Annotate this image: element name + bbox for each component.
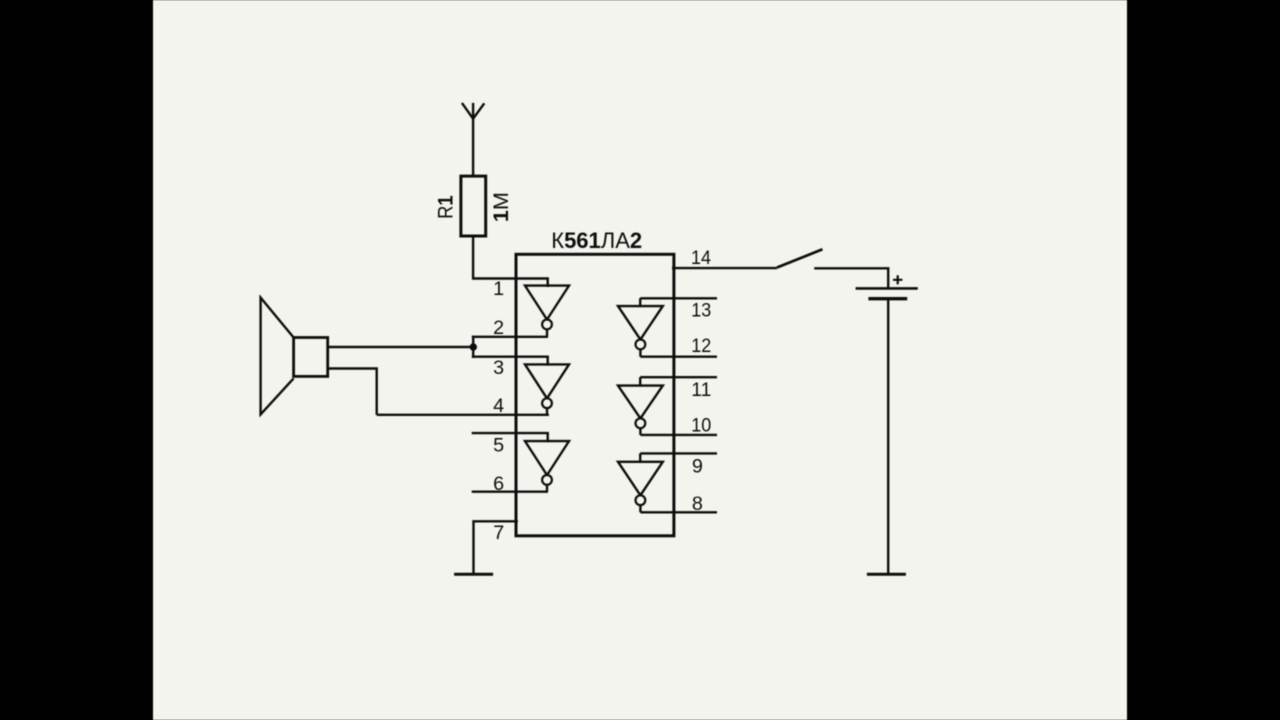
inverter U1.5 triangle (618, 386, 663, 419)
inverter U1.4 bubble (636, 340, 646, 350)
svg-text:2: 2 (493, 317, 504, 339)
svg-text:3: 3 (493, 357, 504, 379)
canvas background (153, 0, 1127, 720)
inverter U1.6 input drop (639, 453, 641, 462)
speaker BA1 frame (294, 338, 328, 377)
wire pin 9 (640, 452, 717, 454)
wire bridge pin2-pin3 (472, 336, 474, 358)
svg-text:7: 7 (493, 522, 504, 544)
wire pin 3 (472, 356, 549, 358)
wire pin 13 (640, 297, 717, 299)
svg-text:12: 12 (691, 335, 711, 357)
inverter U1.4 triangle (618, 306, 663, 339)
wire pin 14 to switch (672, 267, 777, 269)
svg-text:К561ЛА2: К561ЛА2 (551, 228, 642, 253)
inverter U1.5 bubble (636, 418, 646, 428)
svg-text:1М: 1М (490, 192, 513, 222)
inverter U1.2 triangle (525, 364, 569, 398)
inverter U1.3 triangle (525, 441, 569, 475)
inverter U1.1 output drop (546, 329, 548, 337)
wire battery negative lead (887, 299, 889, 575)
inverter U1.4 input drop (639, 298, 641, 307)
svg-text:4: 4 (493, 395, 504, 417)
wire pin 5 (472, 432, 549, 434)
wire pin 4 (377, 414, 549, 416)
battery GB1 positive plate (856, 287, 918, 290)
svg-text:8: 8 (692, 493, 703, 515)
wire speaker top to junction (328, 346, 474, 348)
wire pin 10 (640, 434, 717, 436)
svg-text:10: 10 (691, 415, 711, 437)
svg-text:14: 14 (691, 247, 711, 269)
svg-text:11: 11 (691, 379, 711, 401)
junction node (470, 343, 477, 350)
inverter U1.2 output drop (546, 408, 548, 415)
inverter U1.6 output drop (639, 505, 641, 512)
inverter U1.1 input drop (547, 279, 549, 288)
resistor R1 (461, 176, 486, 236)
inverter U1.3 output drop (546, 485, 548, 492)
antenna WA1 (462, 103, 484, 177)
wire pin 6 (472, 491, 548, 493)
inverter U1.1 bubble (542, 320, 552, 330)
wire pin 8 (640, 511, 717, 513)
wire switch to battery (814, 268, 888, 289)
battery GB1 negative plate (868, 297, 907, 300)
wire pin 11 (640, 376, 717, 378)
IC U1 K561LA2 body (516, 254, 674, 536)
inverter U1.2 input drop (547, 357, 549, 366)
wire R1 to pin 1 (473, 236, 549, 279)
svg-text:9: 9 (692, 455, 703, 477)
svg-text:R1: R1 (434, 195, 457, 219)
battery negative rail bar (867, 573, 906, 576)
ground bar (454, 573, 493, 576)
inverter U1.3 bubble (542, 475, 552, 485)
speaker BA1 cone (261, 298, 294, 415)
svg-text:6: 6 (493, 473, 504, 495)
inverter U1.1 triangle (525, 286, 569, 320)
inverter U1.3 input drop (547, 433, 549, 442)
svg-text:1: 1 (493, 278, 504, 300)
svg-text:5: 5 (493, 434, 504, 456)
switch SA1 blade (777, 249, 823, 267)
inverter U1.5 input drop (639, 377, 641, 386)
svg-text:13: 13 (691, 299, 711, 321)
wire speaker bottom jog (328, 369, 377, 415)
wire pin 7 to ground (474, 521, 518, 574)
inverter U1.2 bubble (542, 398, 552, 408)
inverter U1.6 triangle (618, 462, 663, 496)
inverter U1.6 bubble (636, 495, 646, 505)
wire pin 2 (472, 336, 548, 338)
wire pin 12 (640, 356, 717, 358)
inverter U1.5 output drop (639, 428, 641, 435)
battery GB1 plus sign (893, 275, 902, 284)
inverter U1.4 output drop (639, 349, 641, 356)
